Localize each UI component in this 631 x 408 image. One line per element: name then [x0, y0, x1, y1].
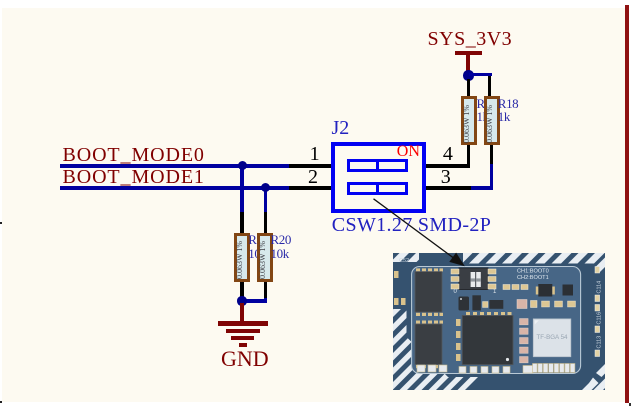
- svg-text:CH1:BOOT0: CH1:BOOT0: [517, 268, 549, 274]
- svg-text:C114: C114: [597, 280, 603, 293]
- svg-text:C116: C116: [597, 311, 603, 324]
- svg-text:CH2:BOOT1: CH2:BOOT1: [517, 274, 549, 280]
- svg-text:TF-BGA 54: TF-BGA 54: [537, 334, 569, 341]
- svg-text:C113: C113: [597, 335, 603, 348]
